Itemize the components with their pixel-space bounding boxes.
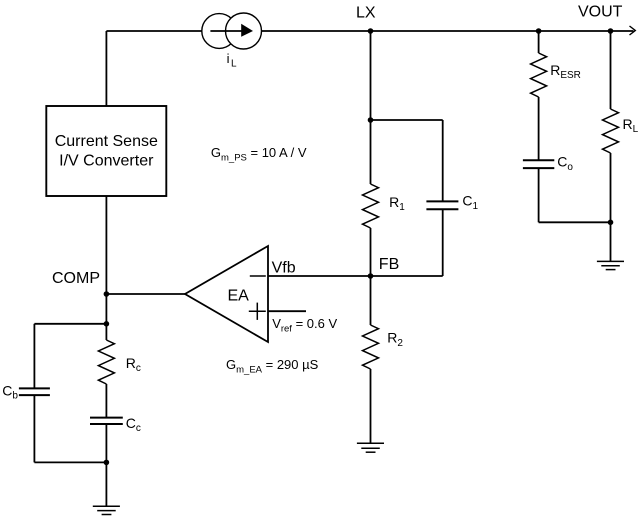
wire R2 to ground [370,369,372,443]
svg-text:FB: FB [379,256,399,273]
wire Cc to ground [105,424,107,506]
wire Co to bottom return [538,168,540,222]
capacitor Cc [90,418,123,424]
capacitor Co [523,160,554,168]
wire LX down to R1 [370,31,372,184]
resistor RL [603,109,619,153]
junction at RL ground return [608,220,614,226]
svg-text:Current Sense: Current Sense [55,133,158,150]
wire C1 branch horizontal [371,119,443,121]
current source iL [202,13,262,49]
node COMP junction [104,291,110,297]
wire from top rail into converter box [105,31,107,106]
wire Cb branch down [33,324,35,389]
svg-text:LX: LX [356,4,376,21]
wire Rc to Cc [105,384,107,418]
wire FB to R2 [370,276,372,325]
block Current Sense I/V Converter [46,106,166,196]
svg-text:I/V Converter: I/V Converter [59,152,154,169]
junction at Cb bottom return [104,460,110,466]
node FB junction [368,273,374,279]
wire R1 to FB [370,228,372,276]
minus sign (inverting input) [250,275,266,277]
wire COMP to Cb branch [34,323,106,325]
wire junction to ground [610,222,612,261]
svg-text:Vfb: Vfb [272,260,296,277]
node LX junction [368,28,374,34]
junction at RESR branch [536,28,542,34]
resistor R2 [363,325,379,369]
capacitor Cb [19,388,50,395]
wire bottom return Co to RL [539,221,611,223]
wire top rail right segment (LX to VOUT) [258,30,634,32]
wire non-inverting input stub [268,310,306,312]
wire inverting input to FB [268,275,443,277]
arrow head at VOUT output [630,26,636,35]
wire RESR to Co [538,97,540,160]
wire EA output to COMP [106,293,186,295]
wire Cb to bottom return [33,395,35,462]
svg-text:i: i [227,51,230,66]
ground (COMP network) [93,506,120,514]
resistor RESR [531,53,547,97]
svg-text:L: L [231,59,237,70]
junction at Cb branch [104,321,110,327]
wire C1 to FB rail [442,209,444,276]
plus sign (non-inverting input) [249,303,266,320]
svg-text:VOUT: VOUT [578,3,623,20]
wire box to COMP node and Rc [105,196,107,340]
op-amp EA [185,246,268,342]
wire C1 branch down [442,120,444,201]
wire bottom return to ground junction [34,461,106,463]
capacitor C1 [426,201,458,209]
ground (R2) [357,443,384,452]
wire VOUT down to RL [610,31,612,109]
wire top rail left segment [106,30,206,32]
junction at C1 branch [368,117,374,123]
resistor R1 [363,184,379,228]
wire VOUT rail to RESR [538,31,540,53]
svg-text:COMP: COMP [52,270,100,287]
svg-text:EA: EA [228,288,250,305]
junction at VOUT / RL branch [608,28,614,34]
ground (output) [597,261,624,269]
wire RL to ground junction [610,153,612,222]
resistor Rc [98,340,114,384]
